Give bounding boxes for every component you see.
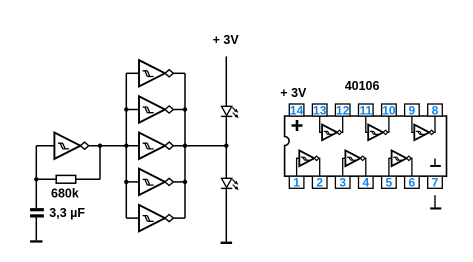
wire: row3 output to LED node [173,145,226,147]
wire: feedback horizontal left of resistor [36,178,56,180]
svg-text:10: 10 [382,103,396,117]
pin 5 [382,176,397,188]
svg-text:1: 1 [293,176,300,190]
label: + polarity mark inside IC [292,120,303,131]
ground: LED column [221,242,233,244]
pin 2 [312,176,327,188]
node: oscillator output junction [98,144,102,148]
wire: row2 input stub [126,109,139,111]
svg-text:7: 7 [432,176,439,190]
ground: symbol below pin 7 [430,195,441,209]
op-amp gate C (pins 9-8) [414,125,434,141]
LED D2 [221,178,238,189]
ground: symbol inside IC at pin 7 [430,159,441,167]
pin 6 [405,176,420,188]
svg-text:2: 2 [316,176,323,190]
wire: row1 output stub [173,72,185,74]
op-amp gate A (pins 13-12) [322,125,342,141]
op-amp U1C paralleled Schmitt inverter row2 [139,96,173,122]
pin 11 [359,104,374,116]
wire: LED2 to ground [225,188,227,241]
node: left bus row3 [124,144,128,148]
wire: row1 input stub [126,72,139,74]
op-amp gate D (pins 1-2) [299,151,319,167]
LED D1 [221,106,238,117]
wire: gate F output to pin6 [410,158,413,176]
wire: pin9 to gate C input [412,116,414,132]
wire: gate A output to pin12 [342,116,343,132]
pin 12 [335,104,350,116]
svg-text:40106: 40106 [345,79,380,93]
pin 13 [312,104,327,116]
op-amp U1D paralleled Schmitt inverter row3 [139,133,173,159]
node: right bus row4 [183,180,187,184]
op-amp gate B (pins 11-10) [368,125,388,141]
pin 1 [289,176,304,188]
wire: row4 output stub [173,181,185,183]
svg-text:14: 14 [290,103,304,117]
svg-text:11: 11 [359,103,372,117]
svg-text:8: 8 [432,103,439,117]
svg-text:3,3 µF: 3,3 µF [49,206,85,220]
capacitor C1 3,3 uF [30,208,44,217]
pin 8 [428,104,443,116]
ground: oscillator [30,240,42,242]
svg-text:680k: 680k [51,187,79,201]
wire: pin13 to gate A input [320,116,322,132]
wire: row5 output stub [173,217,185,219]
wire: pin11 to gate B input [366,116,368,132]
svg-text:4: 4 [362,176,369,190]
wire: gate D output to pin2 [318,158,321,176]
pin 4 [359,176,374,188]
node: right bus row3 [183,144,187,148]
pin 10 [382,104,397,116]
resistor R1 680k [56,175,75,183]
pin 3 [335,176,350,188]
svg-text:13: 13 [313,103,327,117]
node: left bus row2 [124,107,128,111]
svg-text:5: 5 [386,176,393,190]
pin 14 [289,104,304,116]
svg-text:3: 3 [339,176,346,190]
wire: inverter bank right output bus [184,73,186,218]
op-amp gate F (pins 5-6) [392,151,412,167]
IC U1 40106 body [285,116,447,176]
wire: row5 input stub [126,217,139,219]
wire: gate E output to pin4 [364,158,367,176]
op-amp gate E (pins 3-4) [345,151,365,167]
wire: oscillator input horizontal [36,145,54,147]
wire: left vertical (input node down to capacitor) [35,146,37,208]
wire: oscillator output to inverter bank input bus [89,145,139,147]
svg-text:+ 3V: + 3V [280,86,307,100]
wire: feedback vertical from output down to resistor [99,146,101,180]
wire: row2 output stub [173,109,185,111]
wire: inverter bank left input bus [125,73,127,218]
op-amp U1F paralleled Schmitt inverter row5 [139,205,173,231]
svg-text:+ 3V: + 3V [213,33,240,47]
pin 9 [405,104,420,116]
node: junction input/resistor [34,177,38,181]
wire: LED1 to node [225,116,227,178]
wire: row4 input stub [126,181,139,183]
wire: gate C output to pin8 [434,116,435,132]
wire: capacitor to ground [35,218,37,241]
wire: pin1 to gate D input [297,158,300,176]
wire: pin5 to gate F input [389,158,392,176]
svg-text:6: 6 [409,176,416,190]
node: LED junction with inverter outputs [224,144,228,148]
wire: +3V to LED1 [225,56,227,106]
node: left bus row4 [124,180,128,184]
op-amp U1B paralleled Schmitt inverter row1 [139,60,173,86]
pin 7 [428,176,443,188]
svg-text:9: 9 [409,103,416,117]
wire: feedback horizontal right of resistor [76,178,100,180]
op-amp U1E paralleled Schmitt inverter row4 [139,169,173,195]
wire: gate B output to pin10 [388,116,389,132]
node: right bus row2 [183,107,187,111]
op-amp U1A oscillator Schmitt inverter [54,133,88,159]
svg-text:12: 12 [336,103,350,117]
wire: pin3 to gate E input [343,158,346,176]
